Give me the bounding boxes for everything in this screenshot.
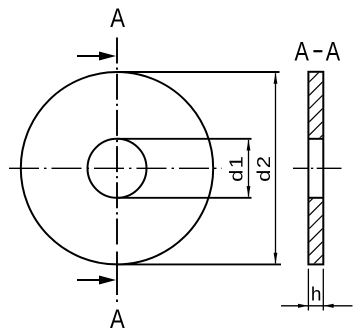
- svg-text:A: A: [110, 305, 125, 335]
- extension line d1 top: [117, 138, 252, 140]
- dimension line h with inward arrows: [281, 304, 353, 308]
- inner circle d1 (hole): [88, 139, 147, 198]
- section hatching: [291, 50, 341, 287]
- section arrow top: [77, 52, 116, 61]
- hole edge top in section: [308, 138, 323, 140]
- extension line h right: [322, 269, 324, 311]
- extension line h left: [307, 269, 309, 311]
- extension line d1 bottom: [117, 197, 252, 199]
- svg-text:d2: d2: [254, 155, 274, 182]
- svg-text:A: A: [326, 37, 341, 67]
- cutting plane line solid tail: [116, 252, 118, 296]
- dimension line d2: [274, 72, 278, 264]
- svg-text:d1: d1: [227, 155, 247, 182]
- hole edge bottom in section: [308, 197, 323, 199]
- horizontal centerline of washer: [9, 167, 222, 169]
- svg-text:A: A: [294, 37, 309, 67]
- centerline of section view: [293, 167, 342, 169]
- section outline rectangle: [308, 72, 323, 265]
- section arrow bottom: [77, 276, 116, 285]
- dimension line d1: [247, 139, 251, 198]
- svg-text:h: h: [311, 285, 322, 306]
- label A-A: [294, 37, 340, 67]
- extension line d2 top: [117, 71, 280, 73]
- svg-text:A: A: [110, 4, 125, 34]
- cutting plane line end dot: [116, 300, 118, 303]
- outer circle d2: [21, 72, 213, 264]
- extension line d2 bottom: [117, 263, 281, 265]
- cutting plane line A-A (vertical dash-dot): [116, 38, 118, 248]
